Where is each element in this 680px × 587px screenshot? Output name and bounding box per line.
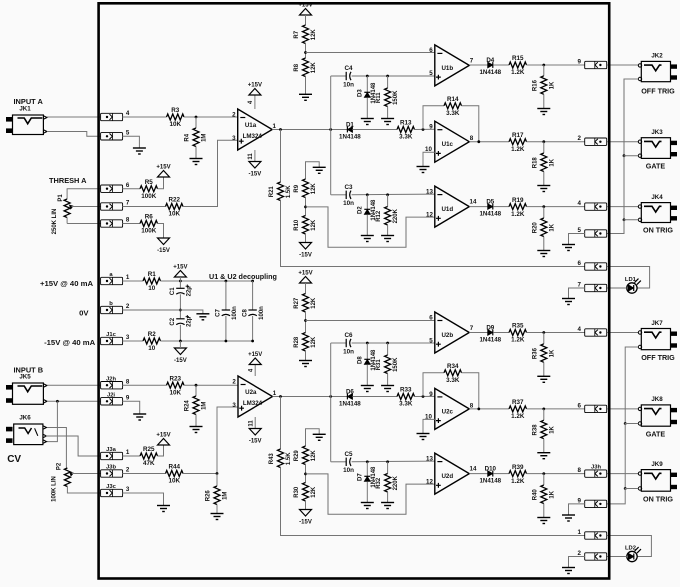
board outline frame (99, 3, 610, 578)
wire R28 to ground (305, 351, 307, 361)
svg-text:C8: C8 (242, 309, 248, 317)
wire R10 to -15V (305, 234, 307, 243)
svg-text:R30: R30 (294, 486, 300, 498)
ground R36 (537, 376, 550, 382)
wire R44 to U2a pin 3 (183, 407, 238, 474)
svg-text:6: 6 (429, 314, 433, 321)
svg-text:LD2: LD2 (625, 546, 636, 552)
resistor R29 (294, 446, 317, 464)
svg-text:220K: 220K (393, 208, 399, 223)
resistor R33 (397, 387, 415, 408)
wire C6 to U2b pin 5 (352, 342, 435, 344)
wire pin 5 to ground (123, 136, 140, 148)
node U1a out (279, 128, 282, 131)
power +15V U1a (248, 83, 262, 96)
svg-text:+15V: +15V (173, 265, 187, 271)
svg-text:R11: R11 (376, 92, 382, 103)
svg-text:4: 4 (578, 200, 582, 207)
svg-text:1.2K: 1.2K (511, 69, 525, 76)
wire U2a V- (254, 417, 256, 429)
pin 1 B (578, 529, 607, 539)
svg-text:C4: C4 (344, 65, 353, 72)
node C8 bottom (251, 340, 254, 343)
wire U1c output (469, 141, 509, 143)
wire U1a output (272, 129, 347, 131)
wire R22 to U1a pin 3 (183, 140, 238, 206)
svg-text:JK3: JK3 (651, 129, 663, 136)
svg-text:5: 5 (429, 70, 433, 77)
svg-text:U2a: U2a (245, 389, 257, 396)
wire C5 to U2d pin 13 (352, 460, 435, 463)
svg-text:C5: C5 (344, 451, 353, 458)
wire to C3 (331, 194, 347, 196)
svg-text:D1: D1 (346, 121, 354, 128)
ground R29 (313, 434, 326, 440)
capacitor C8 (242, 306, 264, 320)
wire R18 to ground (543, 172, 545, 186)
svg-text:LM324: LM324 (243, 400, 263, 407)
wire R5 to +15V (158, 177, 164, 189)
svg-text:J2h: J2h (106, 376, 116, 382)
resistor R27 (294, 294, 317, 312)
resistor R3 (167, 107, 185, 128)
ground pin 7 (562, 299, 575, 305)
svg-text:ON TRIG: ON TRIG (643, 494, 673, 503)
svg-text:THRESH A: THRESH A (49, 176, 87, 185)
svg-text:LD1: LD1 (625, 277, 637, 283)
svg-text:R13: R13 (400, 120, 412, 127)
wire to R43 (280, 397, 282, 450)
hook ground R29 (306, 429, 320, 446)
svg-text:2: 2 (126, 303, 130, 310)
ground R16 (537, 109, 550, 115)
wire JK5 sleeve to J2i (47, 400, 101, 402)
svg-text:R7: R7 (294, 30, 300, 38)
wire R20 to ground (543, 237, 545, 251)
wire R29 to R30 (305, 465, 307, 483)
wire JK1 sleeve to pin 5 (47, 132, 101, 137)
svg-text:12: 12 (426, 478, 433, 485)
wire to R36 (543, 333, 545, 344)
node GATE B (542, 408, 545, 411)
wire JK1 tip to pin 4 (47, 116, 100, 118)
ground R8 (299, 94, 312, 100)
capacitor C5 (343, 451, 354, 474)
svg-text:1.2K: 1.2K (511, 413, 525, 420)
svg-text:10: 10 (148, 345, 156, 352)
svg-text:1N4148: 1N4148 (479, 210, 501, 217)
node branch B (329, 395, 332, 398)
svg-text:R36: R36 (532, 347, 538, 359)
svg-text:C2: C2 (170, 317, 176, 325)
svg-text:10K: 10K (168, 211, 180, 218)
svg-text:J3a: J3a (106, 447, 116, 453)
svg-text:12: 12 (426, 211, 433, 218)
svg-text:J3c: J3c (106, 484, 116, 490)
ground pin 5 (562, 245, 575, 251)
pin J3a (101, 447, 130, 459)
op-amp U1c (425, 121, 474, 162)
svg-text:+15V: +15V (298, 271, 312, 277)
node sleeves B (56, 400, 59, 403)
wire pin 4 to R3 (123, 116, 167, 118)
node sleeve B2 (624, 487, 627, 490)
wire JK9 sleeve to pin 9 (607, 489, 638, 504)
wire to R20 (543, 207, 545, 218)
svg-text:JK1: JK1 (19, 106, 31, 113)
label CV (7, 454, 21, 465)
wire C3 to U1d pin 13 (352, 193, 435, 196)
node U2c pin 9 (422, 395, 425, 398)
jack JK5 (6, 374, 47, 405)
wire U2a V+ (254, 365, 256, 377)
capacitor C1 (170, 285, 192, 297)
svg-text:1K: 1K (549, 490, 555, 498)
node OFF TRIG A (542, 64, 545, 67)
wire branch vertical B (330, 343, 332, 462)
resistor R35 (509, 323, 527, 344)
resistor R38 (532, 420, 555, 438)
wire C2 down (179, 325, 181, 341)
wire R9 to R10 (305, 198, 307, 216)
node R3/R4 (195, 116, 198, 119)
resistor R37 (509, 399, 527, 420)
svg-text:R27: R27 (294, 297, 300, 309)
resistor R43 (269, 449, 292, 467)
svg-text:9: 9 (429, 391, 433, 398)
svg-text:8: 8 (470, 135, 474, 142)
wire pin 4 to JK4 (607, 206, 638, 208)
pin 6 (578, 260, 607, 270)
svg-text:D3: D3 (358, 89, 364, 97)
wire D4 to R15 (494, 64, 509, 66)
ground R38 (537, 453, 550, 459)
svg-text:U2b: U2b (441, 332, 453, 339)
wire JK2 sleeve (624, 79, 638, 156)
svg-text:10n: 10n (343, 200, 354, 207)
ground R12 (381, 236, 394, 242)
svg-text:5: 5 (126, 130, 130, 137)
pin 11 label U2a (248, 420, 254, 427)
svg-text:6: 6 (429, 47, 433, 54)
svg-text:D6: D6 (346, 388, 354, 395)
wire to C6 (331, 342, 347, 344)
wire D3 to ground (366, 98, 368, 119)
power +15V U2a (248, 352, 262, 365)
power +15V rail (173, 265, 187, 278)
wire to R4 (195, 117, 197, 128)
jack JK1 (6, 106, 47, 135)
wire divider to U2b pin 6 (306, 320, 435, 322)
wire R12 to ground (387, 225, 389, 236)
svg-text:JK4: JK4 (651, 194, 663, 201)
diode D7 (358, 466, 377, 488)
wire pin 5 to ground (569, 234, 585, 245)
svg-text:150K: 150K (393, 357, 399, 372)
wire R26 to ground (216, 505, 218, 514)
pin 5 (101, 130, 130, 141)
ground R9 (313, 167, 326, 173)
resistor R10 (294, 216, 317, 234)
svg-text:+15V: +15V (156, 433, 170, 439)
wire +15V to R7 (305, 15, 307, 25)
svg-text:R35: R35 (512, 323, 524, 330)
wire JK4 sleeve to pin 5 (607, 220, 638, 234)
svg-text:1M: 1M (202, 134, 208, 142)
ground D3 (361, 119, 374, 125)
diode D5 (479, 198, 501, 217)
resistor R31 (376, 355, 399, 373)
svg-text:R40: R40 (532, 489, 538, 501)
svg-text:11: 11 (248, 153, 254, 160)
svg-text:R1: R1 (148, 271, 157, 278)
wire JK5 tip to J2h (47, 384, 100, 386)
wire D1 to R13 (352, 129, 397, 131)
svg-text:1: 1 (273, 390, 277, 397)
svg-text:R26: R26 (206, 490, 212, 502)
op-amp U1d (426, 186, 477, 227)
svg-text:R20: R20 (532, 222, 538, 234)
diode D8 (358, 349, 377, 371)
capacitor C7 (216, 306, 238, 320)
svg-text:1.5K: 1.5K (286, 185, 292, 198)
svg-text:OFF TRIG: OFF TRIG (641, 353, 675, 362)
svg-text:R3: R3 (171, 107, 180, 114)
ground R24 (190, 427, 203, 433)
svg-text:14: 14 (470, 199, 477, 206)
wire pin a to R1 (123, 280, 143, 282)
wire to C4 (331, 75, 347, 77)
svg-text:14: 14 (470, 466, 477, 473)
diode D4 (479, 57, 501, 76)
resistor R36 (532, 344, 555, 362)
power -15V U1a (249, 162, 262, 178)
power -15V R10 (299, 243, 312, 259)
wire to D8 (366, 343, 368, 359)
svg-text:R23: R23 (169, 375, 181, 382)
ground U1c pin 10 (417, 167, 430, 173)
wire R32 to ground (387, 492, 389, 503)
svg-text:9: 9 (429, 124, 433, 131)
wire divider to U1b pin 6 (306, 52, 435, 54)
wire R34 to U2c out (462, 373, 479, 409)
svg-text:1.2K: 1.2K (511, 211, 525, 218)
wire to R31 (387, 343, 389, 355)
svg-text:OFF TRIG: OFF TRIG (641, 87, 675, 96)
svg-text:ON TRIG: ON TRIG (643, 226, 673, 235)
pin J2i (101, 393, 130, 406)
ground R40 (537, 518, 550, 524)
jack JK6 (6, 415, 47, 445)
svg-text:9: 9 (578, 59, 582, 66)
svg-text:1K: 1K (549, 425, 555, 433)
wire U1c pin 10 to ground (423, 152, 435, 166)
wire pin 7 to R22 (123, 206, 166, 208)
resistor R25 (140, 446, 158, 467)
wire J2h to R23 (123, 384, 167, 386)
wire to R16 (543, 65, 545, 76)
power -15V R6 (157, 238, 170, 254)
wire pin 4 to JK7 (607, 332, 638, 334)
svg-text:P1: P1 (58, 194, 64, 202)
ground D7 (361, 503, 374, 509)
ground pin 5 (133, 148, 146, 154)
wire to R11 (387, 76, 389, 88)
wire R6 to -15V (158, 224, 164, 239)
wire C4 to U1b pin 5 (352, 75, 435, 77)
resistor R26 (206, 486, 229, 504)
svg-text:8: 8 (578, 467, 582, 474)
wire to D7 (366, 462, 368, 476)
wire to C5 (331, 461, 347, 463)
node sleeve A1 (623, 154, 626, 157)
svg-text:1M: 1M (202, 402, 208, 410)
pin 7 (101, 200, 130, 211)
pin 4 label U1a (248, 100, 254, 104)
resistor R2 (143, 331, 161, 352)
ground J3c (157, 506, 170, 512)
svg-text:R32: R32 (376, 477, 382, 489)
svg-text:R16: R16 (532, 79, 538, 91)
wire R43 to pin 1 (281, 468, 585, 536)
capacitor C4 (343, 65, 354, 88)
wire +15V to R27 (305, 283, 307, 294)
hook ground R9 (306, 162, 320, 179)
jack JK2 (638, 53, 677, 96)
svg-text:R10: R10 (294, 219, 300, 231)
svg-text:3: 3 (232, 402, 236, 409)
pin a (101, 272, 130, 284)
power +15V R25 (156, 433, 170, 446)
svg-text:D7: D7 (358, 473, 364, 481)
wire D5 to R19 (494, 206, 509, 208)
wire R8 to ground (305, 77, 307, 95)
svg-text:3: 3 (126, 334, 130, 341)
ground pin 9 B (562, 515, 575, 521)
svg-text:R8: R8 (294, 63, 300, 71)
svg-text:250K LIN: 250K LIN (52, 209, 58, 235)
node ON TRIG B (542, 472, 545, 475)
node U2c out (477, 408, 480, 411)
node branch (329, 128, 332, 131)
pin 2 (578, 135, 607, 145)
power +15V R7 (298, 3, 312, 16)
wire R36 to ground (543, 362, 545, 376)
svg-text:D9: D9 (486, 324, 494, 331)
wire R16 to ground (543, 94, 545, 108)
svg-text:J3h: J3h (591, 464, 601, 470)
wire JK3 sleeve (624, 156, 638, 220)
node R12 (386, 193, 389, 196)
svg-text:GATE: GATE (646, 429, 666, 438)
ground J2i (133, 414, 146, 420)
ground R20 (537, 251, 550, 257)
pin J1c (101, 332, 130, 344)
svg-text:1.2K: 1.2K (511, 146, 525, 153)
svg-text:+15V: +15V (156, 165, 170, 171)
wire C8 down (252, 316, 254, 341)
resistor R17 (509, 132, 527, 153)
node R31 (386, 342, 389, 345)
pin J3h (578, 464, 607, 477)
svg-text:U1a: U1a (245, 122, 257, 129)
pin 5 (578, 227, 607, 237)
label THRESH A (49, 176, 87, 185)
pin 4 (101, 110, 130, 121)
wire R30 to -15V (305, 501, 307, 510)
node sleeve B1 (624, 422, 627, 425)
wire J3c to ground (123, 493, 164, 506)
wire to R18 (543, 142, 545, 153)
resistor R15 (509, 55, 527, 76)
resistor R11 (376, 88, 399, 107)
label U1 & U2 decoupling (209, 272, 277, 281)
svg-text:1N4148: 1N4148 (479, 477, 501, 484)
svg-text:R44: R44 (168, 464, 180, 471)
svg-text:-15V: -15V (157, 248, 170, 254)
svg-text:U2c: U2c (442, 408, 454, 415)
wire U2b output (469, 332, 488, 334)
svg-text:4: 4 (578, 326, 582, 333)
resistor R8 (294, 58, 317, 77)
pin 7 (578, 282, 607, 292)
svg-text:+15V: +15V (248, 83, 262, 89)
wire pin 6 to pot top (67, 189, 100, 199)
svg-text:11: 11 (248, 420, 254, 427)
resistor R44 (166, 464, 184, 485)
svg-text:22µ: 22µ (187, 286, 193, 297)
svg-text:-15V: -15V (174, 358, 187, 364)
wire D9 to R35 (494, 332, 509, 334)
svg-text:5: 5 (578, 227, 582, 234)
svg-text:9: 9 (126, 395, 130, 402)
wire 0V line (123, 310, 203, 314)
node D3 (366, 75, 369, 78)
wire D6 to R33 (352, 396, 397, 398)
ground D2 (361, 236, 374, 242)
svg-text:2: 2 (232, 111, 236, 118)
diode D10 (479, 465, 501, 484)
svg-text:R37: R37 (512, 399, 524, 406)
svg-text:12K: 12K (311, 183, 317, 195)
wire pin 2 to JK3 (607, 141, 638, 143)
wire R19 to pin 4 (527, 206, 585, 208)
svg-text:-15V @ 40 mA: -15V @ 40 mA (44, 338, 96, 347)
svg-text:100n: 100n (232, 306, 238, 320)
node R23/R24 (195, 384, 198, 387)
svg-text:R39: R39 (512, 464, 524, 471)
svg-text:LM324: LM324 (243, 133, 263, 140)
wire to C7 (225, 281, 227, 310)
svg-text:R29: R29 (294, 450, 300, 462)
wire R24 to ground (195, 415, 197, 427)
svg-text:INPUT B: INPUT B (14, 366, 44, 375)
wire C1 to C2 (179, 294, 181, 318)
svg-text:10: 10 (148, 285, 156, 292)
wire D8 to ground (366, 365, 368, 386)
wire +15V arrow (179, 277, 181, 288)
wire R39 to pin 8 (527, 473, 585, 475)
pin J3b (101, 465, 130, 477)
wire R15 to pin 9 (527, 64, 585, 66)
svg-text:47K: 47K (143, 460, 155, 467)
svg-text:3.3K: 3.3K (446, 110, 460, 117)
wire -15V rail (161, 340, 253, 342)
svg-text:R4: R4 (185, 133, 191, 141)
svg-text:R15: R15 (512, 55, 524, 62)
svg-text:1N4148: 1N4148 (479, 69, 501, 76)
svg-text:C6: C6 (344, 332, 353, 339)
